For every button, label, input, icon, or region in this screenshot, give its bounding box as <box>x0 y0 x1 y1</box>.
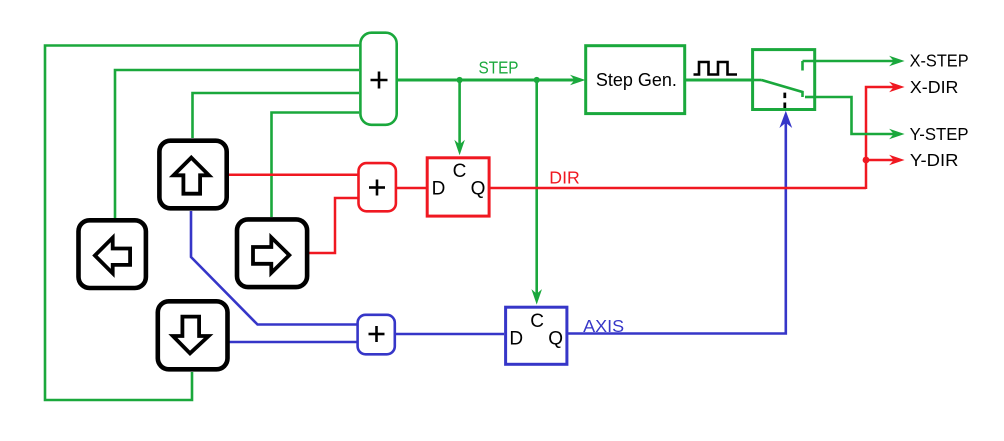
or-gate OR2 (red, direction OR) <box>359 163 396 211</box>
svg-text:Q: Q <box>471 178 486 199</box>
wire: red DIR net from DFF1 Q to right riser <box>489 187 866 190</box>
svg-text:D: D <box>432 178 446 199</box>
or-gate OR1 (green, keys OR -> STEP) <box>360 33 396 125</box>
node: junction dot on STEP at x=459.6 <box>457 77 463 83</box>
switch lower throw contact line <box>805 96 816 99</box>
svg-text:Q: Q <box>548 329 563 350</box>
flip-flop DFF1 (red, DIR latch) <box>427 158 489 216</box>
wire: green from UP key top to OR1 input 3 <box>193 93 360 138</box>
svg-text:AXIS: AXIS <box>583 316 624 336</box>
wire: arrowhead into Step Gen <box>570 75 586 86</box>
svg-text:C: C <box>453 161 467 182</box>
wire: green X-STEP output <box>803 60 897 63</box>
wire: arrowhead Y-DIR <box>889 155 905 166</box>
svg-text:X-DIR: X-DIR <box>910 77 959 97</box>
svg-text:Step Gen.: Step Gen. <box>596 70 677 90</box>
wire: green feedback loop from DOWN key around left edge to OR1 input 1 <box>45 46 359 401</box>
wire: red Y-DIR branch <box>866 159 896 162</box>
wire: red OR2 output to DFF1 D input <box>396 187 427 190</box>
svg-text:X-STEP: X-STEP <box>910 51 969 71</box>
wire: blue AXIS net from DFF2 Q to mux select with arrowhead <box>567 122 786 334</box>
key RIGHT button <box>237 219 307 287</box>
switch wiper diagonal inside demux <box>762 80 803 97</box>
or-gate OR3 (blue, axis OR) <box>358 315 395 355</box>
wire: green from LEFT key top to OR1 input 2 <box>115 70 359 218</box>
wire: red from RIGHT key to OR2 input 2 <box>308 198 358 253</box>
label + of OR1 <box>371 72 388 89</box>
wire: green from Step Gen to demux <box>686 79 751 82</box>
key LEFT button <box>79 220 146 288</box>
svg-text:D: D <box>509 329 523 350</box>
wire: red riser up to X-DIR output <box>866 87 896 189</box>
wire: blue from UP key bottom diagonal to OR3 input 1 <box>191 211 357 325</box>
svg-text:Y-STEP: Y-STEP <box>910 124 969 144</box>
wire: blue OR3 output to DFF2 D input <box>396 333 504 336</box>
wire: green STEP net from OR1 output to Step Gen input <box>397 79 578 82</box>
switch pole stub inside demux <box>751 79 762 82</box>
dashed select line inside demux <box>783 93 786 110</box>
switch upper throw contact stub <box>801 61 804 71</box>
wire: green Y-STEP output <box>814 97 896 134</box>
symbol: black square-wave pulse train <box>694 62 738 75</box>
demux / switch box (green) <box>753 50 815 110</box>
label + of OR3 <box>369 326 385 342</box>
svg-text:Y-DIR: Y-DIR <box>910 150 959 170</box>
svg-text:STEP: STEP <box>479 58 519 78</box>
wire: red from UP key to OR2 input 1 <box>229 174 358 177</box>
wire: arrowhead Y-STEP <box>889 129 905 140</box>
svg-text:C: C <box>530 311 544 332</box>
label + of OR2 <box>369 180 385 196</box>
wire: blue from DOWN key to OR3 input 2 <box>230 341 358 344</box>
svg-text:DIR: DIR <box>549 167 580 187</box>
wire: green from RIGHT key top to OR1 input 4 <box>272 113 360 218</box>
wire: arrowhead X-STEP <box>889 56 905 67</box>
wire: arrowhead X-DIR <box>889 82 905 93</box>
wire: green drop from STEP to DFF2 clock C with arrowhead <box>531 80 542 305</box>
node: junction dot on STEP at x=536.7 <box>534 77 540 83</box>
key UP button <box>159 141 226 209</box>
key DOWN button <box>158 301 228 369</box>
flip-flop DFF2 (blue, AXIS latch) <box>506 307 567 364</box>
wire: green drop from STEP to DFF1 clock C with arrowhead <box>454 80 465 155</box>
node: red junction dot Y-DIR tap <box>863 157 870 164</box>
block Step Gen. (green box) <box>586 46 685 114</box>
